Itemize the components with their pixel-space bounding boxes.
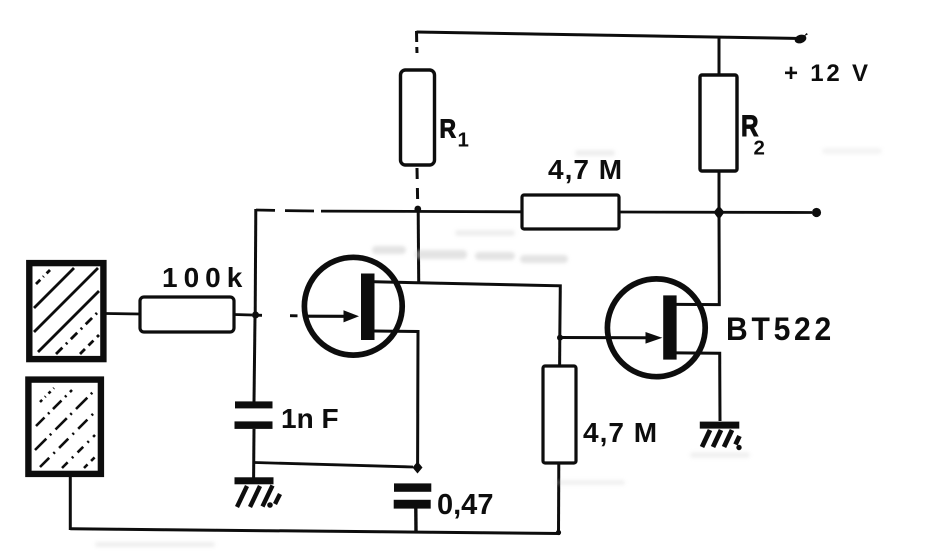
electrode plate E2 xyxy=(28,380,101,474)
resistor 4.7M (gate) xyxy=(543,366,576,463)
transistor T1 xyxy=(303,257,402,355)
wire: 1nF branch to node xyxy=(255,463,414,468)
wire: E1 to 100k xyxy=(106,312,140,315)
capacitor C1 1nF xyxy=(235,401,273,429)
wire: T1 source to feedback node xyxy=(375,331,419,464)
wire: E2 bottom lead xyxy=(69,477,72,530)
wire: R1 top lead (dashed) xyxy=(415,31,419,53)
resistor 4.7M (feedback) xyxy=(522,195,619,229)
resistor R2 xyxy=(700,75,737,171)
svg-text:4,7 M: 4,7 M xyxy=(548,154,623,185)
junction: bottom rail end xyxy=(556,530,561,535)
wire: gate resistor bottom lead xyxy=(557,463,560,534)
label R1 xyxy=(440,114,469,152)
junction node (gate T2) xyxy=(557,335,563,341)
svg-text:BT522: BT522 xyxy=(726,311,835,347)
output terminal dot xyxy=(812,208,821,217)
label R2 xyxy=(741,110,765,160)
wire: left vertical (gate node riser) xyxy=(254,209,258,313)
capacitor C2 0,47 xyxy=(394,483,432,508)
transistor T2 BT522 xyxy=(607,279,705,377)
ground (T2) xyxy=(700,422,742,451)
wire: +12V top rail xyxy=(417,32,801,39)
wire: C1 bottom stem xyxy=(252,429,255,478)
wire: node to 1nF (vertical) xyxy=(254,317,255,402)
faint scan smudge (ghost text) xyxy=(95,148,882,547)
wire: T2 source to ground xyxy=(677,353,721,421)
wire: T1 gate dash xyxy=(256,314,298,317)
wire: R1 bottom lead (dashed) xyxy=(416,168,420,199)
wire: T1 drain line to T2 gate node xyxy=(375,282,561,338)
svg-text:+ 12 V: + 12 V xyxy=(784,60,871,87)
junction node (gate T1) xyxy=(252,311,259,318)
svg-text:0,47: 0,47 xyxy=(437,489,493,521)
wire: middle line (left, partly dashed) xyxy=(256,210,522,212)
wire: bottom rail xyxy=(70,529,560,534)
svg-text:2: 2 xyxy=(754,137,765,160)
svg-text:R: R xyxy=(440,114,457,144)
junction node (R2 / output) xyxy=(714,206,725,220)
wire: middle line (right) xyxy=(619,211,812,214)
svg-text:100k: 100k xyxy=(162,262,248,293)
wire: T2 drain to output node xyxy=(677,213,720,305)
electrode plate E1 xyxy=(29,263,103,359)
ground (1nF) xyxy=(235,477,281,508)
wire: T2 gate line xyxy=(560,336,646,339)
wire: rail to R2 xyxy=(718,36,721,75)
junction node (source / feedback) xyxy=(413,462,423,474)
wire: R2 to output node xyxy=(718,171,721,212)
resistor R1 xyxy=(401,70,435,165)
wire: 100k to gate node xyxy=(234,313,252,316)
svg-text:4,7 M: 4,7 M xyxy=(583,417,658,448)
wire: gate resistor top lead xyxy=(558,339,561,366)
svg-text:1: 1 xyxy=(458,129,469,152)
svg-text:1n F: 1n F xyxy=(281,403,339,434)
resistor 100k xyxy=(140,297,234,332)
wire: C2 bottom stem xyxy=(414,508,418,532)
wire: R1 node down to T1 drain xyxy=(417,211,421,282)
junction node (R1 / middle line) xyxy=(414,206,421,213)
supply terminal dot xyxy=(793,33,808,45)
